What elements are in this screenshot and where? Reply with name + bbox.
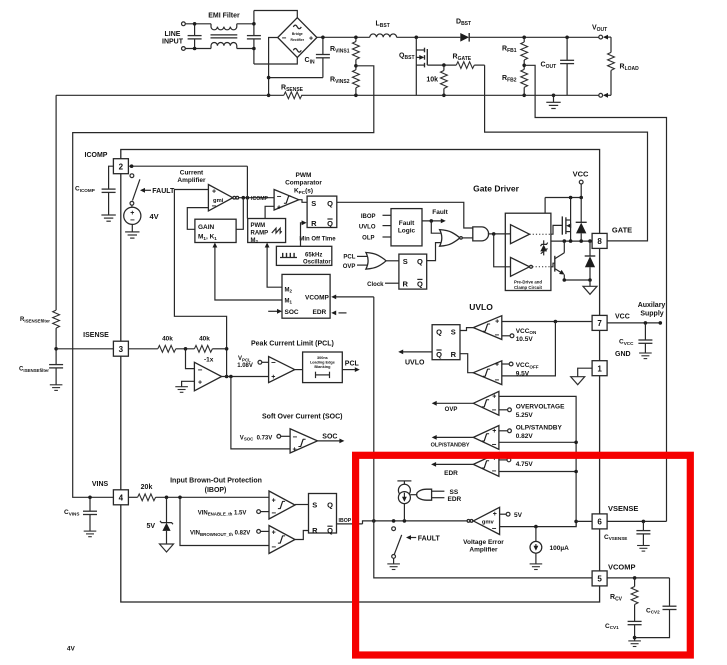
- svg-text:+: +: [492, 394, 496, 401]
- svg-text:UVLO: UVLO: [359, 224, 376, 230]
- IC boundary box: [121, 150, 600, 603]
- wire line input top: [185, 23, 211, 25]
- svg-text:5: 5: [597, 575, 602, 584]
- GAIN box: [195, 219, 236, 242]
- wire left sense column: [55, 95, 57, 310]
- comparator EDR: [473, 453, 499, 477]
- wire EMI out bottom: [237, 48, 254, 50]
- pre-drive and clamp box: [505, 213, 551, 290]
- comparator VIN enable: [269, 491, 295, 519]
- clamp diode lower: [589, 241, 591, 256]
- OR gate PCL/OVP: [366, 253, 386, 270]
- pull-down transistor: [551, 263, 555, 267]
- svg-text:-1x: -1x: [204, 356, 214, 363]
- svg-text:VCOMP: VCOMP: [608, 563, 636, 572]
- latch PCL SR: [399, 254, 427, 289]
- svg-text:PWM: PWM: [251, 223, 266, 229]
- svg-text:−: −: [492, 524, 497, 533]
- EMI filter inductor top winding: [211, 24, 237, 30]
- capacitor CVINS: [88, 496, 92, 500]
- ground driver: [589, 280, 591, 286]
- svg-text:1: 1: [597, 364, 602, 373]
- svg-text:+: +: [272, 497, 276, 504]
- svg-text:−: −: [271, 542, 276, 551]
- svg-text:−: −: [271, 509, 276, 518]
- svg-text:−: −: [211, 202, 216, 211]
- 5V reference gmv: [500, 513, 507, 515]
- svg-text:−: −: [494, 331, 499, 340]
- svg-text:Input Brown-Out Protection: Input Brown-Out Protection: [170, 477, 262, 484]
- svg-text:−: −: [198, 365, 203, 374]
- svg-text:FAULT: FAULT: [152, 188, 175, 195]
- wire ICOMP node: [239, 197, 274, 199]
- svg-text:Logic: Logic: [398, 227, 416, 234]
- svg-text:VPCL: VPCL: [238, 356, 251, 362]
- bridge rectifier: [278, 18, 317, 58]
- capacitor EMI C2: [253, 11, 255, 36]
- wire PWM comp out to latch S: [299, 200, 307, 203]
- svg-text:7: 7: [597, 319, 602, 328]
- multiplier box M: [282, 274, 330, 318]
- SS EDR current source: [397, 480, 411, 482]
- buffer lower inverting: [511, 257, 530, 276]
- svg-text:Comparator: Comparator: [285, 180, 322, 187]
- wire -1x output row: [222, 376, 269, 378]
- svg-text:Soft Over Current (SOC): Soft Over Current (SOC): [262, 414, 343, 421]
- wire PWM comp plus input: [265, 206, 274, 218]
- svg-text:PCL: PCL: [345, 361, 360, 368]
- svg-text:VCC: VCC: [573, 170, 589, 179]
- svg-text:20k: 20k: [141, 484, 153, 491]
- svg-text:EDR: EDR: [313, 309, 327, 316]
- wire feedback tap to VSENSE: [524, 65, 666, 521]
- svg-text:EMI Filter: EMI Filter: [208, 13, 240, 20]
- svg-text:−: −: [494, 375, 499, 384]
- svg-text:M2: M2: [251, 238, 259, 244]
- Fault Logic box: [391, 209, 422, 246]
- wire VCC to comparators: [502, 321, 592, 323]
- svg-text:Q: Q: [417, 279, 423, 288]
- wire gmi minus input: [187, 208, 208, 230]
- svg-text:1.08V: 1.08V: [237, 363, 253, 369]
- svg-text:ICOMP: ICOMP: [251, 196, 269, 202]
- wire brownout minus rail: [180, 497, 269, 545]
- gmv input clamp circles: [467, 520, 470, 523]
- svg-text:Clock: Clock: [367, 282, 384, 288]
- svg-text:−: −: [492, 440, 497, 449]
- svg-text:EDR: EDR: [448, 496, 462, 503]
- OVP output arrow: [435, 402, 473, 404]
- svg-text:R: R: [402, 279, 408, 288]
- svg-text:FAULT: FAULT: [418, 535, 441, 542]
- pin 1 GND: [592, 361, 607, 376]
- sawtooth glyph: [272, 228, 282, 233]
- svg-text:GATE: GATE: [612, 226, 632, 235]
- svg-text:40k: 40k: [162, 336, 173, 343]
- svg-text:−: −: [130, 216, 135, 225]
- svg-text:−: −: [282, 33, 287, 42]
- VOUT return terminal: [599, 93, 603, 97]
- EMI filter inductor bottom winding: [211, 42, 237, 48]
- svg-text:+: +: [495, 319, 499, 326]
- svg-text:−: −: [271, 358, 276, 367]
- svg-text:M2: M2: [285, 288, 293, 294]
- svg-text:−: −: [492, 467, 497, 476]
- svg-text:OLP: OLP: [362, 236, 374, 242]
- svg-text:S: S: [403, 257, 408, 266]
- svg-text:S: S: [312, 500, 317, 509]
- svg-text:0.73V: 0.73V: [257, 435, 273, 441]
- fault switch vcomp: [392, 527, 396, 531]
- svg-text:INPUT: INPUT: [162, 39, 184, 46]
- wire comp1 out to S: [460, 328, 473, 331]
- svg-text:LINE: LINE: [165, 31, 181, 38]
- gate output row: [551, 240, 592, 242]
- upper drive MOSFET: [551, 225, 562, 234]
- svg-text:4V: 4V: [150, 212, 159, 221]
- driver bottom rail: [564, 279, 590, 281]
- clamp zener: [543, 240, 545, 244]
- svg-text:Amplifier: Amplifier: [177, 177, 206, 184]
- svg-text:+: +: [293, 446, 297, 453]
- svg-text:Fault: Fault: [399, 220, 415, 227]
- PWM RAMP box: [248, 219, 286, 243]
- svg-text:+: +: [495, 362, 499, 369]
- svg-text:Q: Q: [436, 350, 442, 359]
- IBOP output wire: [337, 523, 363, 525]
- svg-text:R: R: [451, 350, 457, 359]
- svg-text:IBOP: IBOP: [339, 518, 352, 524]
- svg-text:Fault: Fault: [432, 209, 448, 216]
- wire M1 output to gain: [215, 246, 282, 300]
- wire fault to OR gate: [431, 221, 441, 233]
- wire M2 output to ramp: [267, 246, 282, 287]
- svg-text:OVP: OVP: [445, 407, 458, 413]
- svg-text:8: 8: [597, 237, 602, 246]
- svg-text:VINENABLE_th 1.5V: VINENABLE_th 1.5V: [198, 510, 247, 516]
- wire pin2 down to ramp: [246, 166, 248, 218]
- svg-text:+: +: [271, 374, 275, 381]
- wire SOC input stub: [268, 310, 278, 312]
- svg-text:UVLO: UVLO: [405, 360, 425, 367]
- svg-text:+: +: [309, 35, 313, 42]
- svg-text:Clamp Circuit: Clamp Circuit: [514, 285, 543, 290]
- OLP output arrow: [435, 436, 473, 438]
- wire VINS divider tap to pin 4: [73, 66, 374, 498]
- wire OVP plus to VSENSE rail: [499, 396, 576, 526]
- wire QBST gate: [427, 64, 456, 66]
- wire pin6 external: [607, 520, 666, 522]
- svg-text:GAIN: GAIN: [198, 224, 215, 231]
- wire EMI out top: [237, 23, 254, 25]
- svg-text:Rectifier: Rectifier: [291, 38, 305, 42]
- svg-text:5.25V: 5.25V: [516, 412, 534, 419]
- svg-text:SS: SS: [450, 489, 459, 496]
- capacitor input filter C1: [194, 24, 196, 36]
- svg-text:Q: Q: [417, 257, 423, 266]
- svg-text:EDR: EDR: [444, 470, 458, 477]
- svg-text:OVP: OVP: [343, 264, 356, 270]
- svg-text:VINS: VINS: [92, 481, 109, 488]
- svg-text:Bridge: Bridge: [292, 32, 303, 36]
- comparator OVP: [473, 391, 499, 415]
- UVLO output arrow: [402, 351, 433, 353]
- svg-text:ICOMP: ICOMP: [85, 152, 108, 159]
- svg-text:3: 3: [119, 345, 124, 354]
- svg-text:Q: Q: [327, 199, 333, 208]
- svg-text:6: 6: [597, 518, 602, 527]
- svg-text:R: R: [312, 526, 318, 535]
- svg-text:−: −: [492, 406, 497, 415]
- svg-text:300ns: 300ns: [317, 356, 328, 360]
- latch IBOP SR: [309, 494, 337, 534]
- svg-text:100µA: 100µA: [550, 545, 570, 552]
- wire comp out to latch R: [295, 531, 309, 540]
- svg-text:Gate Driver: Gate Driver: [473, 184, 520, 194]
- wire gmi plus input: [174, 190, 226, 377]
- wire pin1 GND external: [578, 368, 592, 377]
- wire VCOMP input to M box: [335, 296, 374, 298]
- comparator PWM: [274, 190, 299, 211]
- svg-text:IBOP: IBOP: [361, 214, 376, 220]
- svg-text:PWM: PWM: [296, 172, 312, 179]
- svg-text:0.82V: 0.82V: [516, 433, 534, 440]
- wire pin7 VCC external: [607, 322, 660, 324]
- svg-text:Current: Current: [180, 170, 204, 177]
- FAULT label arrow vcomp: [406, 535, 411, 540]
- bottom sense rail: [56, 94, 284, 96]
- EDR output arrow: [434, 463, 473, 465]
- wire gmv minus to pin6: [500, 521, 576, 526]
- svg-text:UVLO: UVLO: [469, 302, 493, 312]
- wire SOC plus input: [231, 377, 290, 449]
- oscillator box: [276, 246, 331, 265]
- svg-text:5V: 5V: [146, 523, 155, 530]
- fault switch icomp: [130, 174, 134, 178]
- svg-text:Q: Q: [436, 328, 442, 337]
- svg-text:+: +: [212, 188, 216, 195]
- wire line input bottom: [185, 48, 211, 50]
- ground output: [553, 95, 555, 102]
- Fault output arrow: [422, 220, 442, 222]
- pin 8 GATE: [592, 233, 607, 248]
- comparator VCC ON: [473, 316, 502, 340]
- comparator SOC: [290, 429, 317, 453]
- svg-text:PCL: PCL: [343, 255, 355, 261]
- svg-text:SOC: SOC: [285, 309, 299, 316]
- svg-text:4.75V: 4.75V: [516, 461, 534, 468]
- capacitor CIN: [322, 37, 324, 54]
- top boost rail: [317, 36, 370, 38]
- svg-text:4: 4: [119, 494, 124, 503]
- red highlight rectangle: [356, 455, 691, 655]
- wire -1x minus input: [186, 349, 195, 369]
- svg-text:−: −: [292, 433, 297, 442]
- svg-text:Blanking: Blanking: [314, 365, 331, 369]
- ground compensation: [628, 641, 641, 647]
- svg-text:Amplifier: Amplifier: [469, 546, 498, 553]
- comparator VCC OFF: [473, 361, 502, 385]
- PCL output arrow: [342, 369, 356, 371]
- svg-text:40k: 40k: [199, 336, 210, 343]
- latch PWM SR: [307, 196, 337, 227]
- leading edge blanking box: [303, 352, 343, 383]
- svg-text:Q: Q: [327, 526, 333, 535]
- svg-text:S: S: [311, 199, 316, 208]
- comparator PCL: [269, 357, 295, 383]
- wire comp out to latch S: [295, 504, 309, 506]
- svg-text:Q: Q: [327, 500, 333, 509]
- LINE INPUT terminal bottom: [182, 47, 186, 51]
- wire comp2 out to R: [460, 354, 473, 373]
- svg-text:ISENSE: ISENSE: [83, 332, 109, 339]
- svg-text:Auxilary: Auxilary: [638, 302, 666, 309]
- svg-text:VCOMP: VCOMP: [305, 294, 330, 301]
- wire ISENSE to pin 3: [56, 348, 113, 350]
- svg-text:9.5V: 9.5V: [516, 370, 530, 377]
- AND gate SS EDR: [417, 489, 432, 500]
- EMI filter core lines: [211, 34, 238, 36]
- LINE INPUT terminal top: [182, 22, 186, 26]
- 4V source: [131, 205, 133, 207]
- svg-text:VCC: VCC: [615, 314, 630, 321]
- buffer upper: [511, 225, 530, 244]
- svg-text:+: +: [277, 205, 281, 212]
- comparator VIN brownout: [269, 526, 295, 554]
- svg-text:VINBROWNOUT_th 0.82V: VINBROWNOUT_th 0.82V: [190, 531, 250, 537]
- wire latch2 Q to OR gate: [427, 243, 441, 261]
- svg-text:Q: Q: [327, 219, 333, 228]
- wire EDR minus to VSENSE rail: [499, 471, 576, 473]
- op-amp gmi current amplifier: [208, 185, 232, 211]
- svg-text:VSENSE: VSENSE: [608, 504, 638, 513]
- wire latch Q to driver: [337, 202, 473, 228]
- svg-text:R: R: [311, 219, 317, 228]
- svg-text:SOC: SOC: [322, 434, 337, 441]
- wire pin2 node: [128, 165, 247, 167]
- svg-text:S: S: [451, 328, 456, 337]
- svg-text:Peak Current Limit (PCL): Peak Current Limit (PCL): [251, 340, 334, 347]
- svg-text:VSOC: VSOC: [240, 435, 254, 441]
- svg-text:2: 2: [119, 162, 124, 171]
- comparator OLP STANDBY: [473, 426, 499, 450]
- latch UVLO: [432, 325, 460, 360]
- svg-text:OLP/STANDBY: OLP/STANDBY: [431, 442, 470, 448]
- svg-text:OLP/STANDBY: OLP/STANDBY: [516, 425, 563, 432]
- wire driver VCC rail: [545, 197, 581, 199]
- svg-text:(IBOP): (IBOP): [205, 487, 227, 494]
- svg-text:+: +: [492, 428, 496, 435]
- svg-text:+: +: [493, 511, 497, 518]
- wire OLP minus to VSENSE rail: [499, 441, 576, 443]
- svg-text:+: +: [272, 530, 276, 537]
- FAULT label arrow: [140, 188, 145, 193]
- svg-text:4V: 4V: [67, 645, 76, 652]
- svg-text:M1: M1: [285, 299, 293, 305]
- op-amp gmv voltage error amplifier: [473, 507, 499, 534]
- SOC output arrow: [318, 440, 342, 442]
- wire VCOMP vertical: [374, 297, 592, 578]
- svg-text:Min Off Time: Min Off Time: [299, 237, 336, 243]
- svg-text:Voltage Error: Voltage Error: [463, 539, 504, 546]
- svg-text:10.5V: 10.5V: [516, 336, 534, 343]
- pin 7 VCC: [592, 315, 607, 330]
- svg-text:RAMP: RAMP: [251, 231, 269, 237]
- 100uA current source: [535, 527, 537, 542]
- gmi output clamp circles: [233, 196, 236, 199]
- wire GATE net to pin 8: [485, 65, 648, 241]
- svg-text:OVERVOLTAGE: OVERVOLTAGE: [516, 403, 565, 410]
- svg-text:Oscillator: Oscillator: [303, 260, 331, 266]
- svg-text:CISENSEfilter: CISENSEfilter: [19, 367, 49, 373]
- wire PCL comp out: [295, 369, 303, 371]
- svg-text:Leading Edge: Leading Edge: [310, 361, 335, 365]
- svg-text:Supply: Supply: [640, 311, 663, 318]
- wire ICOMP to GAIN box: [236, 198, 243, 230]
- OR gate driver: [440, 230, 460, 247]
- dotted buffer outputs: [530, 233, 551, 235]
- wire oscillator to latch R: [301, 223, 304, 247]
- pin 5 VCOMP: [592, 571, 607, 586]
- wire bridge minus to CIN bottom: [269, 38, 278, 96]
- svg-text:GND: GND: [615, 351, 631, 358]
- svg-text:RISENSEfilter: RISENSEfilter: [20, 317, 50, 323]
- wire AND out to buffers: [488, 233, 511, 235]
- ground -1x plus: [182, 381, 195, 386]
- AND gate driver: [473, 227, 489, 241]
- clamp diode upper: [580, 198, 582, 223]
- svg-text:−: −: [277, 192, 282, 201]
- pin 6 VSENSE: [592, 514, 607, 529]
- svg-text:5V: 5V: [514, 512, 523, 519]
- svg-text:65kHz: 65kHz: [305, 252, 322, 258]
- wire bridge AC loop: [254, 11, 297, 18]
- wire pin5 external: [607, 577, 669, 579]
- svg-text:10k: 10k: [426, 77, 438, 84]
- wire EDR input stub: [339, 312, 347, 314]
- svg-text:+: +: [198, 379, 202, 386]
